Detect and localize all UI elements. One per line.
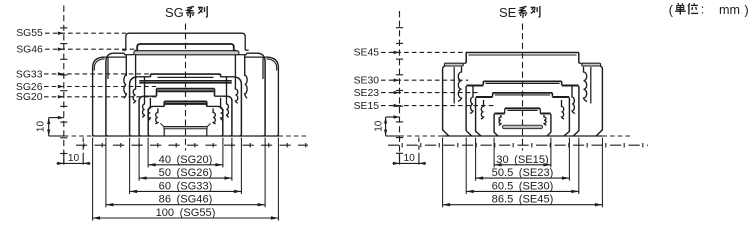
svg-text::: : [701,3,705,17]
SG46 rail groove walls [133,54,135,103]
SG dimension 86 (SG46) [105,138,107,208]
title SG series kanji lie [198,6,203,8]
svg-text:(: ( [669,3,674,18]
SE15 rail groove walls [499,115,501,125]
svg-text:SE15: SE15 [354,101,380,112]
SG26 rail top [157,89,214,91]
svg-text:SG20: SG20 [16,92,43,103]
SE block bottom line [386,135,400,137]
title SG series kanji xi [187,6,194,8]
unit note kanji wei [688,3,690,6]
SG20 block sides [148,106,153,136]
SE23 block sides [476,96,493,98]
SE vertical dimension 10 [386,116,400,118]
SG20 rail top [165,102,206,104]
svg-text:SG33: SG33 [16,69,43,80]
svg-text:SE23: SE23 [354,88,380,99]
svg-text:50 (SG26): 50 (SG26) [159,167,213,179]
leader SE30 [381,79,468,81]
leader SG26 [44,86,156,88]
SG center line [185,24,187,151]
svg-text:100 (SG55): 100 (SG55) [156,207,216,219]
SG20 rail groove walls [155,108,158,123]
SE45 block sides [443,66,449,136]
SE dimension 50.5 (SE23) [475,138,477,181]
svg-text:): ) [744,3,748,18]
SE dimension 86.5 (SE45) [442,138,444,208]
SE dimension 60.5 (SE30) [465,138,467,194]
SG33 block sides [130,77,138,136]
SG dimension 60 (SG33) [129,138,131,194]
svg-text:SG46: SG46 [16,45,43,56]
leader SE23 [381,92,478,94]
leader SG46 [45,48,135,50]
SG46 inner verticals [107,58,109,80]
title SE series kanji xi [520,6,527,8]
svg-text:SG: SG [165,5,184,20]
SE23 rail groove walls [481,100,484,119]
svg-text:30 (SE15): 30 (SE15) [496,154,548,166]
SE center line [522,24,524,151]
SE15 rail top [507,109,539,111]
SG vertical dimension 10 [49,117,64,119]
SE23 rail top [493,92,553,94]
SG label chain line [63,6,65,165]
SE30 block sides [466,85,483,87]
SG block bottom line [49,135,64,137]
svg-text:10: 10 [36,121,47,133]
SG55 seal band [134,51,239,55]
svg-text:40 (SG20): 40 (SG20) [159,154,213,166]
SE45 rail groove walls [458,67,462,102]
SG26 rail groove walls [148,98,150,121]
SG dimension 50 (SG26) [138,138,140,181]
SG horizontal dimension 10 [63,153,65,165]
SG26 block sides [139,96,143,136]
svg-text:SG55: SG55 [16,28,43,39]
svg-text:86.5 (SE45): 86.5 (SE45) [492,194,554,206]
svg-text:10: 10 [373,120,384,132]
svg-text:SE: SE [499,5,517,20]
SE30 rail groove walls [470,86,473,114]
SE30 rail top [483,80,561,82]
leader SG20 [44,96,159,98]
leader SG55 [45,32,126,34]
SE45 inner verticals [453,67,455,104]
SE dimension 30 (SE15) [493,138,495,168]
SG baseline chain line [76,144,308,146]
SE45 seal lip bars [444,63,463,66]
SG46 block sides [106,53,113,136]
svg-text:60.5 (SE30): 60.5 (SE30) [492,180,554,192]
leader SG33 [44,73,150,75]
SG46 rail top outline [137,44,234,51]
svg-text:60 (SG33): 60 (SG33) [159,180,213,192]
SG55 rail groove walls [124,55,126,98]
SE baseline chain line [388,144,648,146]
svg-text:SE30: SE30 [354,76,380,87]
svg-text:10: 10 [68,153,80,164]
SG33 rail groove walls [142,77,144,117]
SE45 rail top [466,52,579,54]
title SE series kanji lie [531,6,536,8]
SE15 rail foot [503,125,543,129]
SE15 block sides [494,113,504,115]
SG20 rail foot [160,123,210,126]
SG33 rail top [151,73,221,75]
SG dimension 100 (SG55) [92,138,94,221]
SG46 seal band lines [139,80,231,83]
SE label chain line [399,11,401,165]
SG55 rail top outline [126,33,245,50]
leader SE15 [381,105,494,107]
SG dimension 40 (SG20) [147,138,149,168]
SE horizontal dimension 10 [399,153,401,165]
SG55 block sides [93,57,105,136]
svg-text:10: 10 [404,153,416,164]
unit note kanji dan [677,3,680,4]
svg-text:86 (SG46): 86 (SG46) [159,194,213,206]
leader SE45 [381,51,467,53]
svg-text:mm: mm [719,3,740,17]
svg-text:SE45: SE45 [354,48,380,59]
svg-text:50.5 (SE23): 50.5 (SE23) [492,167,554,179]
